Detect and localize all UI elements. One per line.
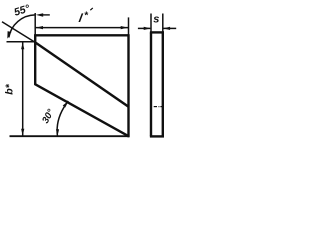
b* top arrowhead [21, 42, 24, 49]
s right arrowhead pointing left [163, 27, 170, 30]
55-degree arc top arrowhead [36, 13, 43, 17]
30-degree arc bottom arrowhead [56, 129, 59, 136]
stray tick near l* [90, 8, 93, 10]
s dimension line right segment [163, 27, 176, 29]
plate 30-degree cut edge D-C [35, 84, 129, 136]
55-degree arc lower arrowhead [7, 31, 11, 39]
plate left edge A-D [34, 34, 36, 84]
l* left arrowhead [36, 26, 43, 29]
b* bottom arrowhead [21, 129, 24, 136]
55-degree angle arc [9, 15, 35, 38]
svg-text:s: s [153, 14, 159, 26]
right edge upward extension line for l* [128, 17, 130, 35]
inner 55-degree diagonal cut line E-F [35, 42, 128, 106]
side view bottom edge [150, 135, 164, 137]
30-degree angle arc [57, 101, 68, 136]
diagonal extension of cut line beyond E (55-degree reference) [2, 22, 35, 43]
s dimension line left segment [138, 27, 151, 29]
svg-text:b*: b* [4, 83, 16, 94]
left edge upward extension line for l* and 55-degree arc [34, 13, 36, 35]
b* dimension line [22, 42, 24, 136]
s left arrowhead pointing right [144, 27, 151, 30]
30-degree arc upper arrowhead [63, 101, 69, 108]
side view centerline dash-dot [154, 106, 157, 108]
side view right extension line up [162, 14, 164, 33]
l* right arrowhead [121, 26, 128, 29]
bottom reference line (b* lower extension to corner C) [10, 135, 130, 137]
l* dimension line [35, 27, 128, 29]
side view right outer line [162, 32, 164, 136]
b* top extension line at E level [7, 41, 35, 43]
side view left outer line [150, 32, 152, 136]
55-degree arc top arrow tail [43, 14, 50, 16]
side view top edge [150, 31, 164, 33]
plate right edge B-C [127, 34, 129, 137]
side view left extension line up [150, 14, 152, 33]
plate top edge A-B [34, 34, 129, 36]
